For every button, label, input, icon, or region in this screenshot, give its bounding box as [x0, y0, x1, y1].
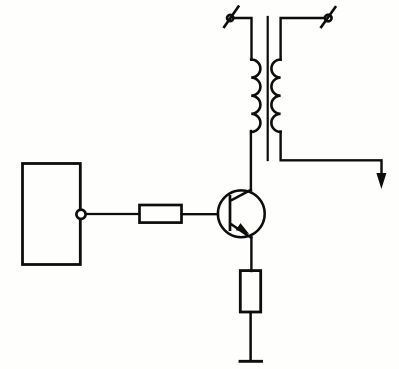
base bar	[229, 196, 232, 229]
emitter lead	[231, 224, 252, 238]
wire box to R1	[87, 213, 140, 215]
wire T1 to primary	[235, 18, 252, 60]
wire secondary bottom to output	[281, 132, 382, 176]
output terminal circle on box	[76, 210, 85, 219]
transistor Q1	[218, 190, 265, 237]
wire collector to primary	[250, 131, 252, 190]
terminal T2	[325, 15, 332, 22]
emitter arrow	[237, 224, 249, 233]
terminal T1	[227, 15, 233, 21]
resistor R2	[240, 271, 260, 312]
secondary winding L2	[271, 60, 280, 132]
primary winding L1	[251, 60, 260, 132]
output arrow	[377, 174, 385, 187]
terminal T2 slash	[321, 7, 335, 27]
collector lead	[231, 190, 251, 201]
core	[267, 17, 269, 160]
ground	[240, 360, 262, 363]
resistor R1	[140, 205, 182, 223]
wire R1 to base	[182, 213, 219, 215]
terminal T1 slash	[224, 7, 238, 27]
wire secondary top to T2	[281, 18, 323, 60]
wire emitter to R2	[250, 237, 252, 271]
signal source box	[23, 164, 81, 265]
wire R2 to ground	[249, 312, 252, 361]
